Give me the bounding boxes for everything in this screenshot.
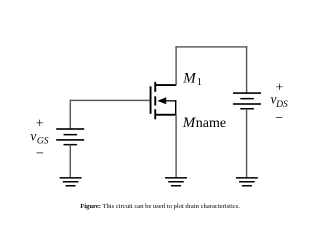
svg-text:M: M [182, 70, 197, 86]
svg-text:Figure: This circuit can be us: Figure: This circuit can be used to plot… [80, 203, 240, 210]
svg-text:+: + [275, 81, 283, 96]
svg-text:DS: DS [275, 100, 288, 110]
svg-text:M: M [182, 115, 197, 131]
svg-text:GS: GS [37, 137, 49, 147]
ground right [236, 177, 258, 186]
ground left [60, 177, 82, 186]
ground middle [165, 177, 187, 186]
svg-text:name: name [196, 116, 226, 131]
wire source vertical to ground [175, 115, 176, 178]
wire gate horizontal [70, 100, 151, 101]
wire drain vertical [175, 46, 176, 85]
wire vGS to ground [70, 145, 71, 178]
svg-text:1: 1 [197, 77, 202, 88]
svg-text:v: v [30, 128, 36, 143]
svg-text:−: − [275, 111, 283, 126]
wire top horizontal [175, 46, 247, 47]
wire left vertical to vGS [70, 100, 71, 129]
svg-text:−: − [36, 147, 44, 162]
battery vDS [233, 92, 261, 109]
transistor M1 [150, 82, 177, 119]
battery vGS [56, 128, 84, 145]
svg-text:+: + [36, 116, 44, 131]
wire vDS to ground [246, 109, 247, 178]
wire right vertical to vDS [246, 46, 247, 93]
